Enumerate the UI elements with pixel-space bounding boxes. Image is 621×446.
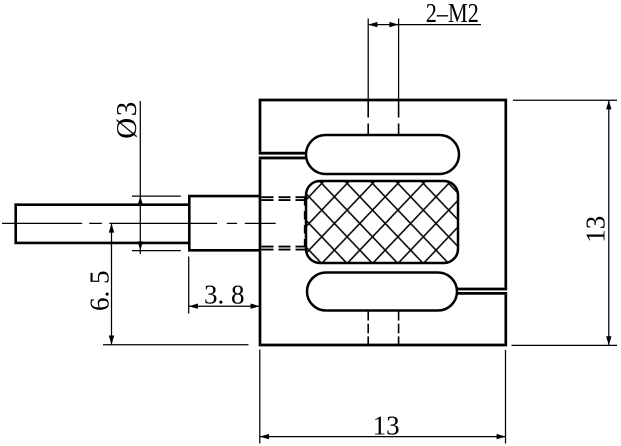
dimension 13 right line xyxy=(608,100,610,345)
dimension 13 bottom extension lines xyxy=(260,350,506,444)
dimension 3.8 extension line xyxy=(188,257,190,314)
svg-text:13: 13 xyxy=(373,410,400,440)
dimension 6.5 line xyxy=(111,224,113,345)
crosshatched gauge block xyxy=(306,181,458,263)
rod (stud shaft) xyxy=(16,205,190,243)
dimension 3.8 line xyxy=(189,305,260,307)
hidden thread lines bottom xyxy=(262,247,306,250)
top slot slit xyxy=(259,153,307,158)
dimension 3.8 arrows xyxy=(189,304,260,309)
bottom flexure slot xyxy=(307,273,457,311)
svg-text:Ø3: Ø3 xyxy=(111,100,143,138)
body outline upper part xyxy=(260,100,506,288)
dimension 2-M2 line xyxy=(368,24,481,26)
svg-text:3. 8: 3. 8 xyxy=(204,279,245,309)
body outline lower part xyxy=(260,159,506,345)
hidden hole end xyxy=(304,197,306,250)
boss (Ø3 stud body) xyxy=(189,196,259,250)
M2 hole hidden lines top xyxy=(368,102,398,135)
dimension 2-M2 arrows xyxy=(368,22,398,27)
bottom slot slit xyxy=(456,289,507,293)
dimension Ø3 extension lines xyxy=(132,196,181,251)
dimension 6.5 bottom extension line xyxy=(103,344,249,346)
centerline xyxy=(2,222,276,224)
dimension Ø3 line xyxy=(139,101,141,254)
dimension 13 bottom line xyxy=(260,436,506,438)
dimension 13 bottom arrows xyxy=(260,434,506,439)
svg-text:13: 13 xyxy=(581,216,611,243)
M2 hole hidden lines bottom xyxy=(368,311,398,345)
svg-text:2–M2: 2–M2 xyxy=(426,0,479,28)
top flexure slot xyxy=(306,135,459,174)
dimension 6.5 arrows xyxy=(109,223,114,344)
dimension 13 right extension lines xyxy=(512,100,618,345)
dimension 2-M2 extension lines xyxy=(368,19,398,99)
hidden thread lines top xyxy=(262,197,306,200)
dimension 13 right arrows xyxy=(606,100,611,345)
dimension Ø3 arrows xyxy=(138,196,143,251)
svg-text:6. 5: 6. 5 xyxy=(85,271,115,312)
